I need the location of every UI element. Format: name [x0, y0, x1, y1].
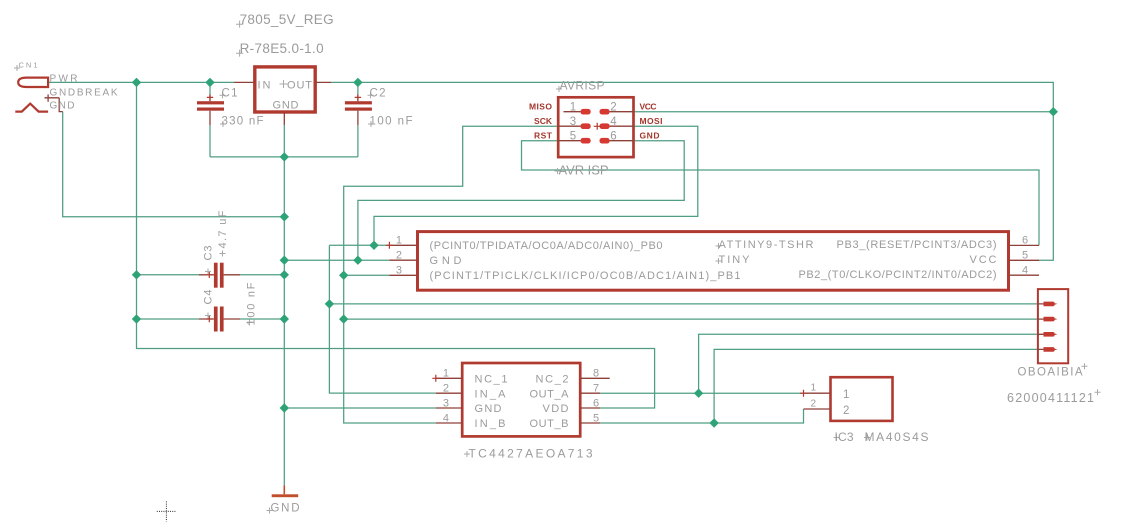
CN1 pin GNDBREAK stub	[45, 94, 63, 111]
ATTINY pin 1 origin cross	[386, 242, 393, 249]
IC ATTINY9-TSHR	[386, 232, 1039, 291]
svg-text:PWR: PWR	[50, 74, 78, 85]
junction TC4427 GND row / main GND	[280, 403, 289, 412]
junction PB0 drop / connector row 1	[325, 299, 334, 308]
wire TC4427 OUT_A to MA40S4S pin 1 and connector pin 3	[600, 334, 1038, 393]
svg-text:4: 4	[443, 412, 449, 424]
svg-text:GND: GND	[640, 130, 660, 140]
svg-text:1: 1	[810, 383, 816, 394]
svg-text:C4: C4	[203, 290, 215, 305]
svg-text:GND: GND	[50, 101, 75, 112]
ground bar	[272, 494, 299, 497]
svg-text:GND: GND	[273, 100, 299, 112]
junction PWR rail / C1	[205, 78, 214, 87]
capacitor C1 330 nF	[197, 88, 264, 128]
junction MOSI / ATTINY pin 1	[369, 241, 378, 250]
wire PWR to regulator IN (5V)	[48, 81, 234, 83]
wire GND to TC4427 pin 3	[284, 407, 436, 409]
svg-text:C1: C1	[222, 88, 238, 100]
transducer IC3 MA40S4S	[800, 377, 929, 444]
svg-text:6: 6	[593, 397, 599, 409]
wire AVRISP GND to ATTINY GND pin 2	[358, 141, 684, 261]
wire PB1 row to connector pin 2	[344, 318, 1038, 320]
svg-text:GNDBREAK: GNDBREAK	[50, 88, 118, 99]
junction PB1 drop / connector row 2	[339, 314, 348, 323]
svg-text:2: 2	[810, 398, 816, 409]
wire TC4427 OUT_B to MA40S4S pin 2 and connector pin 4	[600, 349, 1038, 423]
header AVRISP (AVR ISP 6-pin)	[529, 78, 663, 177]
svg-text:330 nF: 330 nF	[222, 116, 264, 128]
wire C4 row	[137, 318, 285, 320]
svg-text:5: 5	[593, 412, 599, 424]
svg-text:GND: GND	[271, 503, 300, 515]
svg-text:IN_B: IN_B	[475, 418, 506, 430]
CN1 pin GND zigzag symbol	[15, 104, 48, 112]
ATTINY right pin stubs 6 5 4	[1009, 245, 1040, 275]
svg-text:3: 3	[396, 265, 402, 277]
svg-text:(PCINT0/TPIDATA/OC0A/ADC0/AIN0: (PCINT0/TPIDATA/OC0A/ADC0/AIN0)_PB0	[430, 240, 663, 252]
cursor crosshair	[157, 501, 177, 521]
wire regulator GND down	[283, 125, 285, 157]
svg-text:OUT_B: OUT_B	[530, 418, 569, 430]
wire AVRISP RST to ATTINY RESET pin 6	[522, 141, 1040, 246]
TC4427 pin 1 origin cross	[432, 375, 439, 382]
wire capacitor ground row	[210, 156, 358, 158]
svg-text:PB2_(T0/CLKO/PCINT2/INT0/ADC2): PB2_(T0/CLKO/PCINT2/INT0/ADC2)	[799, 269, 997, 281]
wire PB0 net to TC4427 IN_A and connector pin 1	[329, 245, 1038, 393]
svg-text:TC4427AEOA713: TC4427AEOA713	[469, 447, 593, 461]
svg-text:4.7 uF: 4.7 uF	[217, 210, 229, 248]
svg-text:OUT_A: OUT_A	[530, 388, 570, 400]
svg-text:8: 8	[593, 368, 599, 380]
junction 5V rail / AVRISP VCC	[1049, 107, 1058, 116]
wire AVRISP MOSI to ATTINY PB0 pin 1	[374, 126, 698, 245]
svg-text:OUT: OUT	[287, 80, 312, 92]
junction SCK drop / ATTINY pin 3	[339, 271, 348, 280]
svg-text:OBOAIBIA: OBOAIBIA	[1018, 367, 1083, 379]
svg-text:6: 6	[610, 130, 616, 142]
svg-text:3: 3	[443, 397, 449, 409]
svg-text:NC_1: NC_1	[475, 374, 508, 386]
voltage regulator 7805_5V_REG R-78E5.0-1.0	[234, 12, 334, 126]
junction OUT_B / connector row 4 drop	[709, 418, 718, 427]
junction 5V branch / C4	[132, 314, 141, 323]
MA40S4S pin stubs 1 2	[804, 393, 831, 409]
junction C3 row / main GND	[280, 270, 289, 279]
svg-text:PB3_(RESET/PCINT3/ADC3): PB3_(RESET/PCINT3/ADC3)	[837, 239, 997, 251]
capacitor C3 4.7 uF	[199, 210, 240, 287]
capacitor C4 100 nF	[199, 282, 258, 331]
AVRISP pads pin 5 and 6	[581, 138, 591, 144]
ATTINY body	[418, 232, 1009, 291]
svg-text:IN_A: IN_A	[475, 388, 507, 400]
junction PWR rail / C3 C4 branch	[132, 78, 141, 87]
svg-text:VCC: VCC	[640, 101, 657, 111]
AVRISP pads pin 3 and 4	[581, 123, 591, 129]
AVRISP pads pin 1 and 2	[581, 109, 591, 115]
ground stub	[283, 486, 285, 495]
OBOAIBIA body	[1038, 289, 1068, 363]
svg-text:MOSI: MOSI	[640, 116, 663, 126]
OBOAIBIA pad pin 3	[1044, 332, 1058, 337]
wire C2 leads	[357, 82, 359, 156]
CN1 pin PWR bullet symbol	[18, 78, 48, 87]
junction C4 row / main GND	[280, 314, 289, 323]
TC4427 body	[462, 363, 580, 436]
svg-text:VDD: VDD	[543, 403, 569, 415]
svg-text:MISO: MISO	[529, 101, 552, 111]
svg-text:IN: IN	[258, 80, 271, 92]
OBOAIBIA pin stubs	[1038, 304, 1044, 350]
MA40S4S pin 1 origin cross	[800, 390, 807, 397]
connector CN1	[14, 61, 118, 112]
svg-text:6: 6	[1022, 235, 1028, 247]
ATTINY left pin stubs 1 2 3	[389, 245, 417, 275]
svg-text:C3: C3	[203, 246, 215, 261]
regulator pin stubs IN OUT GND	[234, 82, 331, 125]
wire ATTINY pin3 PB1	[344, 274, 390, 276]
svg-text:100 nF: 100 nF	[370, 116, 413, 128]
svg-text:ATTINY9-TSHR: ATTINY9-TSHR	[719, 239, 814, 251]
svg-text:AVR ISP: AVR ISP	[559, 163, 609, 178]
svg-text:7805_5V_REG: 7805_5V_REG	[240, 12, 334, 27]
TC4427 left pin stubs 1 2 3 4	[436, 378, 462, 423]
svg-text:1: 1	[570, 101, 576, 113]
junction cap ground row / regulator GND	[280, 152, 289, 161]
capacitor C2 100 nF	[345, 88, 413, 128]
svg-text:GND: GND	[430, 255, 462, 267]
svg-text:MA40S4S: MA40S4S	[865, 430, 929, 444]
AVRISP center origin cross	[594, 123, 601, 130]
junction 5V branch / C3	[132, 270, 141, 279]
wire AVRISP VCC to 5V	[634, 111, 1054, 113]
svg-text:2: 2	[610, 101, 616, 113]
wire CN1 GND to main GND	[63, 112, 285, 217]
junction AVRISP GND drop / ATTINY pin 2	[353, 256, 362, 265]
svg-text:4: 4	[610, 116, 617, 128]
ground symbol GND	[267, 486, 300, 515]
svg-text:AVRISP: AVRISP	[560, 78, 605, 92]
TC4427 right pin stubs 8 7 6 5	[580, 378, 610, 423]
svg-text:CN1: CN1	[19, 61, 38, 70]
svg-text:1: 1	[443, 368, 449, 380]
svg-text:SCK: SCK	[534, 116, 553, 126]
svg-text:4: 4	[1022, 265, 1028, 277]
svg-text:GND: GND	[475, 403, 502, 415]
svg-text:3: 3	[570, 116, 576, 128]
svg-text:R-78E5.0-1.0: R-78E5.0-1.0	[240, 41, 324, 56]
OBOAIBIA pad pin 4	[1044, 347, 1058, 352]
junction ATTINY GND row / main GND	[280, 256, 289, 265]
wire 5V branch to C3 C4 and TC4427 VDD	[137, 82, 655, 408]
wire ATTINY GND pin 2 to main GND	[284, 259, 389, 261]
svg-text:5: 5	[1022, 250, 1028, 262]
svg-text:2: 2	[396, 250, 402, 262]
svg-text:VCC: VCC	[970, 254, 997, 266]
svg-text:NC_2: NC_2	[536, 374, 569, 386]
junction OUT_A / connector row 3 drop	[694, 389, 703, 398]
svg-text:IC3: IC3	[835, 430, 854, 444]
AVRISP pin lines	[558, 112, 633, 141]
svg-text:62000411121: 62000411121	[1007, 391, 1094, 405]
svg-text:C2: C2	[370, 88, 386, 100]
svg-text:1: 1	[396, 235, 402, 247]
svg-text:(PCINT1/TPICLK/CLKI/ICP0/OC0B/: (PCINT1/TPICLK/CLKI/ICP0/OC0B/ADC1/AIN1)…	[430, 270, 741, 282]
AVRISP body	[558, 97, 633, 157]
svg-text:TINY: TINY	[719, 254, 751, 266]
MA40S4S body	[831, 377, 893, 421]
OBOAIBIA pad pin 2	[1044, 317, 1058, 322]
svg-text:2: 2	[843, 405, 849, 417]
svg-text:RST: RST	[534, 130, 553, 140]
junction 5V rail / C2	[353, 78, 362, 87]
junction CN1 GND / main GND	[280, 212, 289, 221]
wire C3 row	[137, 274, 285, 276]
OBOAIBIA pad pin 1	[1044, 302, 1058, 307]
wire AVRISP SCK to ATTINY PB1 and TC4427 IN_B	[344, 126, 559, 423]
connector OBOAIBIA 62000411121	[1007, 289, 1101, 405]
svg-text:2: 2	[443, 383, 449, 395]
regulator body	[255, 67, 315, 112]
wire main GND vertical to ground symbol	[283, 157, 285, 488]
svg-text:1: 1	[843, 389, 849, 401]
svg-text:7: 7	[593, 383, 599, 395]
wire 5V rail from regulator OUT to ATTINY VCC pin 5	[331, 82, 1053, 260]
wire C1 leads	[209, 82, 211, 156]
svg-text:5: 5	[570, 130, 576, 142]
IC TC4427AEOA713	[432, 363, 609, 461]
